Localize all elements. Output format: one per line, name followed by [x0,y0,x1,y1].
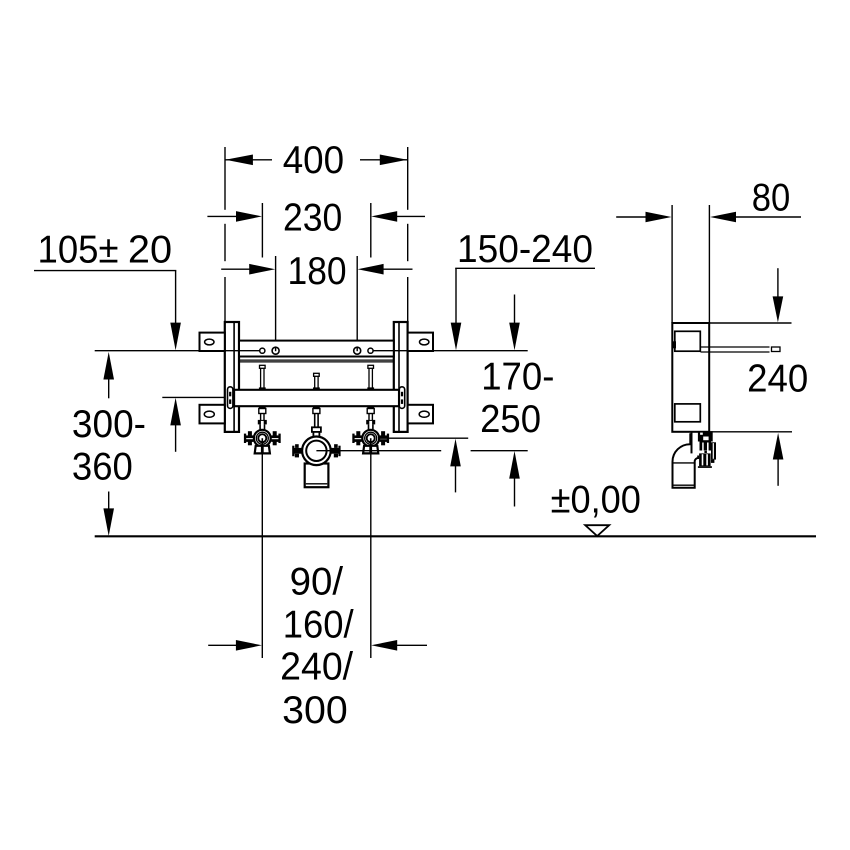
dimension 300-360 arrow down [103,508,114,536]
svg-text:400: 400 [283,139,344,182]
frame: reference line wall-bracket level left [95,350,262,352]
dimension 300-360 arrow down tail [108,492,110,511]
dimension 240 bottom reference line [709,431,792,433]
svg-text:170-: 170- [481,356,554,399]
drain height reference line [316,450,441,452]
side view: drain elbow pipe [672,433,698,487]
dimension 105±20 arrow down [170,323,181,351]
svg-text:360: 360 [72,446,133,489]
dimension 400 extension line right (broken at arrow crossings) [407,147,409,210]
frame: right rail adjustment slot [399,387,404,409]
dimension 90/160/240/300 arrow line right [397,644,427,646]
dimension 80 arrow line right [735,216,801,218]
drain pipe clamp (middle) [292,427,340,487]
dimension 400 line left segment [225,159,272,161]
svg-text:160/: 160/ [283,604,354,647]
svg-text:240/: 240/ [280,646,353,689]
threaded rod below bar: left collar [259,409,266,421]
dimension 90/160/240/300 arrow line left [208,644,236,646]
frame: left rail adjustment slot [228,387,233,409]
threaded rod below bar: right collar [367,409,374,421]
dimension 180 arrow right [358,264,384,275]
frame: bottom-right wall bracket [408,405,433,424]
side view: threaded rod [701,347,781,352]
dimension 230 arrow right [371,211,397,222]
svg-text:230: 230 [283,196,342,239]
svg-text:105±: 105± [38,228,119,271]
180 extension line tips entering inner holes [275,347,277,351]
svg-text:±0,00: ±0,00 [551,479,641,522]
svg-text:90/: 90/ [290,561,344,604]
dimension 400 extension line left (broken at arrow crossings) [224,147,226,210]
side view: frame body [672,323,709,432]
dimension 150-240 leader vertical [455,268,457,324]
dimension 170-250 arrow down [509,323,520,351]
dimension 105±20 leader vertical [175,271,177,324]
svg-text:240: 240 [747,358,808,401]
dimension 105±20 arrow up [170,398,181,426]
threaded rod below bar: middle collar [313,409,320,428]
dimension 240 arrow down [773,296,784,322]
frame: top crossbar lower flange lines [239,359,394,361]
dimension 80 arrow left [646,212,672,223]
frame: right rail [394,322,408,432]
side view: frame front line right [708,205,710,323]
vertical line below left fitting [261,453,263,658]
dimension 170-250 arrow down tail [514,295,516,325]
dimension 400 arrow right [380,155,408,166]
dimension 105±20 arrow up tail [175,425,177,452]
reference line middle crossbar left [162,396,228,398]
dimension 400 arrow left [225,155,253,166]
dimension 180 arrow line left [221,268,250,270]
dimension 240 arrow up [773,433,784,460]
side view: wall line left [671,205,673,323]
dimension 230 arrow line left [207,215,236,217]
dimension 180 arrow line right [383,268,413,270]
ground line [95,535,816,537]
dimension 230 extension line left [261,203,263,258]
dimension 150-240 arrow down [451,323,462,351]
frame: top-left wall bracket [200,333,225,351]
dimension 180 extension line right [356,256,358,351]
frame: faucet holes on top crossbar [260,347,373,354]
side view: top inner plate [675,331,701,351]
dimension 150-240 arrow up [450,439,461,467]
frame: left rail [225,322,239,432]
dimension 230 arrow left [236,211,262,222]
level marker triangle [585,525,609,536]
rod-to-bar junction nubs [259,387,266,390]
dimension 90/160/240/300 arrow right [371,640,397,651]
dimension 105±20 leader underline [34,270,176,272]
dimension 170-250 arrow up [509,451,520,479]
dimension 170-250 arrow up tail [514,478,516,506]
side view: bottom inner plate [675,404,701,422]
svg-text:180: 180 [288,250,347,293]
frame: reference line wall-bracket level right [371,350,528,352]
dimension 300-360 arrow up [103,352,114,380]
frame: middle crossbar [234,390,399,406]
dimension 400 line right segment [360,159,408,161]
rod top caps above middle crossbar [260,365,374,390]
side view: notch on wall side [672,341,676,348]
frame: top crossbar [239,341,394,357]
frame: top-right wall bracket [408,333,433,351]
dimension 230 arrow line right [397,215,425,217]
dimension 90/160/240/300 arrow left [236,640,262,651]
svg-text:20: 20 [128,228,172,271]
left water connection fitting [244,420,281,454]
svg-text:300-: 300- [72,403,146,446]
dimension 240 top reference line [709,322,791,324]
dimension 150-240 leader underline [455,267,595,269]
right water connection fitting [352,420,389,454]
dimension 240 arrow up tail [777,459,779,486]
svg-text:150-240: 150-240 [457,228,593,271]
dimension 240 arrow down tail [777,268,779,297]
vertical line below right fitting [370,453,372,658]
dimension 150-240 arrow up tail [455,466,457,492]
dimension 80 arrow line left [616,216,646,218]
svg-text:80: 80 [752,177,791,220]
frame: bottom-left wall bracket [200,405,225,424]
dimension 300-360 arrow up tail [108,379,110,398]
svg-text:250: 250 [480,398,541,441]
svg-text:300: 300 [282,689,348,732]
dimension 180 arrow left [249,264,275,275]
dimension 80 arrow right [710,212,736,223]
dimension 230 extension line right [370,203,372,258]
side view: drain coupling ribbed [691,431,717,468]
dimension 180 extension line left [275,256,277,351]
water connection height reference line [380,437,469,439]
